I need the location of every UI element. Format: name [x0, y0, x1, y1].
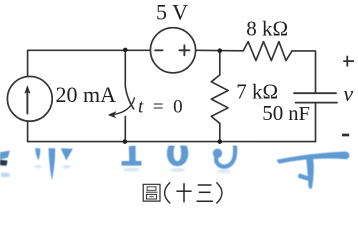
- svg-text:20 mA: 20 mA: [56, 82, 117, 107]
- label minus polarity: [342, 134, 349, 137]
- wire top-right segment: [292, 51, 316, 93]
- voltage source minus sign: [155, 49, 162, 51]
- switch branch upper wire: [124, 50, 126, 87]
- caption: character ten: [176, 183, 191, 202]
- watermark digit 5 curl: [216, 145, 235, 167]
- watermark stroke: right triangle: [61, 148, 73, 160]
- resistor R2 lower wire: [219, 123, 221, 141]
- svg-text:50: 50: [262, 101, 283, 125]
- current source arrow: [26, 89, 28, 114]
- switch arc arrow: [114, 98, 135, 115]
- node C dot (switch tap, bottom): [123, 139, 128, 144]
- svg-text:nF: nF: [288, 103, 310, 125]
- capacitor C1 top plate: [294, 92, 336, 94]
- node A dot (switch tap, top): [123, 48, 128, 53]
- watermark glyph right: vertical stroke with hook: [298, 158, 314, 189]
- wire bottom rail: [28, 141, 316, 143]
- svg-text:8 kΩ: 8 kΩ: [246, 16, 288, 40]
- watermark stroke: teardrop: [35, 148, 40, 160]
- caption: open paren: [165, 182, 171, 203]
- voltage source V1 circle: [150, 28, 195, 73]
- watermark digit 0: [167, 140, 188, 167]
- watermark glyph right: horizontal stroke: [277, 152, 350, 164]
- voltage source plus sign: [179, 45, 189, 55]
- node D dot (7k tap, bottom): [218, 139, 223, 144]
- current source I1 circle: [7, 76, 52, 121]
- label plus polarity: [343, 56, 354, 67]
- svg-text:5 V: 5 V: [156, 0, 188, 24]
- wire top-middle segment: [196, 49, 244, 52]
- watermark stroke: long vertical: [49, 148, 56, 180]
- svg-text:t = 0: t = 0: [138, 97, 185, 118]
- resistor R2 7kOhm zigzag: [211, 75, 228, 124]
- node B dot (7k tap, top): [218, 48, 223, 53]
- svg-text:v: v: [343, 81, 353, 106]
- caption: close paren: [216, 182, 222, 203]
- watermark stroke: left edge wedge: [0, 140, 349, 189]
- switch blade: [125, 87, 133, 109]
- wire right rail lower: [315, 103, 317, 142]
- resistor R2 7k branch upper wire: [219, 51, 221, 75]
- switch branch lower wire: [124, 117, 126, 142]
- resistor R1 8kOhm zigzag: [243, 42, 292, 61]
- wire left rail bottom: [27, 121, 29, 142]
- watermark digit 1: [129, 145, 136, 162]
- wire top-left segment: [28, 50, 151, 76]
- caption: character tu (figure): [143, 184, 160, 201]
- capacitor C1 bottom plate: [296, 102, 338, 104]
- caption: character three: [197, 185, 213, 201]
- svg-text:7 kΩ: 7 kΩ: [236, 80, 278, 104]
